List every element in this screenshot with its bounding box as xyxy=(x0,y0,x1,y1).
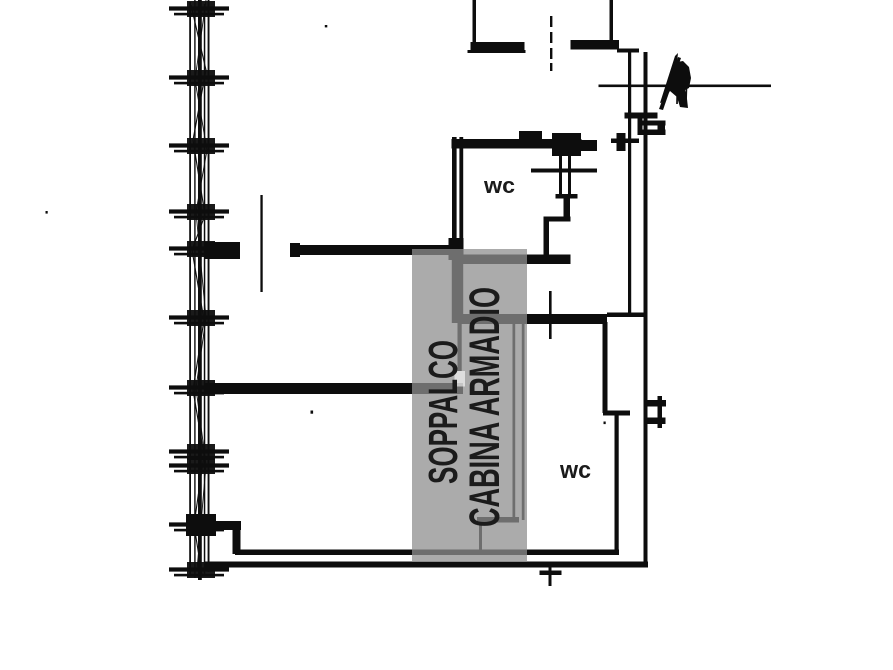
svg-text:CABINA ARMADIO: CABINA ARMADIO xyxy=(461,287,509,527)
wc(top) bottom wall xyxy=(461,255,571,265)
wc(top) top wall xyxy=(452,139,582,149)
wall tie 2 xyxy=(169,70,229,86)
party wall bundle (left scribbled wall) xyxy=(189,0,209,580)
bottom wall inner line xyxy=(235,550,619,556)
dashed door line at top xyxy=(550,16,552,27)
wc(bottom) wall jog tick xyxy=(603,411,630,416)
wall tie 11 xyxy=(169,562,229,578)
top wall piece left: vertical xyxy=(473,0,477,45)
wc(bottom) right wall xyxy=(603,322,608,413)
closet tick xyxy=(477,517,519,523)
interior wall y=388 (scribbled, runs under grey band) xyxy=(204,383,463,394)
north arrow blob xyxy=(660,53,691,108)
ink speck near wc jog xyxy=(604,422,606,425)
white door gap inside grey band xyxy=(455,371,466,387)
bottom wall outer line xyxy=(204,562,648,568)
tick y=170 xyxy=(531,169,597,173)
north arrow reference line xyxy=(599,85,772,88)
wall tie 9 xyxy=(169,458,229,474)
wall tie 7 xyxy=(169,380,229,396)
svg-text:SOPPALCO: SOPPALCO xyxy=(420,340,466,484)
wc(top) left double wall x=452..463 xyxy=(452,137,457,323)
wc(bottom) top wall xyxy=(461,314,608,324)
wall tie 4 xyxy=(169,204,229,220)
tick y=196 xyxy=(556,194,578,199)
svg-text:wc: wc xyxy=(559,457,591,484)
closet thin vertical to bottom wall xyxy=(479,523,482,554)
blob at party wall bottom step xyxy=(186,514,216,536)
solid core of left wall under grey band xyxy=(452,252,463,323)
closet partition thin vertical under grey band xyxy=(458,323,462,371)
top wall piece right: vertical xyxy=(610,0,614,47)
wall tie 5 xyxy=(169,241,229,257)
top wall piece right: bar xyxy=(571,40,620,50)
outer right wall xyxy=(644,52,648,564)
ink speck left margin xyxy=(46,211,48,214)
closet double wall (under grey band) xyxy=(513,324,516,520)
cross tick on right wall y=140 xyxy=(611,139,639,144)
svg-text:wc: wc xyxy=(483,173,515,198)
wc(top) right double wall xyxy=(559,148,562,197)
bottom-left step wall xyxy=(204,521,241,530)
wall tie 8 xyxy=(169,444,229,460)
inner right wall lower xyxy=(615,413,619,553)
balcony notch on right wall y=400..425 xyxy=(645,400,667,407)
shaft boxes on right wall y=113..135 xyxy=(625,113,658,119)
inner right wall upper xyxy=(628,52,631,316)
wall tie 1 xyxy=(169,1,229,17)
ink speck below wall y=388 xyxy=(311,411,314,414)
tick below bottom wall xyxy=(549,565,552,586)
wall tie 6 xyxy=(169,310,229,326)
wall tie 10 xyxy=(169,517,229,533)
top wall piece left: bar xyxy=(471,42,525,52)
thin partition line x=550 crossing wc(bottom) top wall xyxy=(549,291,552,339)
short free-standing partition line x=261 xyxy=(260,195,262,292)
wall stub right of party wall at y=250 xyxy=(204,242,240,259)
grey highlight band (soppalco / cabina armadio) xyxy=(412,249,527,562)
interior wall y=250 (scribbled) xyxy=(291,245,461,255)
wc(top) lower right wall jog xyxy=(564,197,571,219)
ink speck top middle xyxy=(325,25,328,27)
wall tie 3 xyxy=(169,138,229,154)
